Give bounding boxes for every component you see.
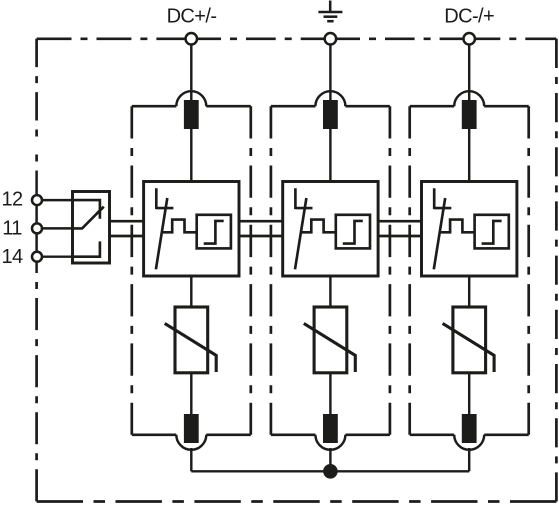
wire SCI unit to varistor branch 2 (earth) [329,276,331,307]
thermal disconnector (top black fuse bar) branch 3 (DC-/+) [462,100,477,129]
svg-text:11: 11 [2,218,22,240]
terminal earth [325,33,337,45]
bottom disconnector (black fuse bar) branch 1 (DC+/-) [184,414,199,443]
varistor body branch 1 (DC+/-) [175,307,208,373]
module bottom exit arc branch 3 (DC-/+) [454,435,484,450]
earth symbol above middle terminal [318,1,342,22]
SCI trigger box branch 2 (earth) [336,215,370,249]
wire to earth bus branch 3 (DC-/+) [468,448,470,471]
outer device boundary left edge solid part at signal terminals [35,171,38,274]
wire to earth bus branch 2 (earth) [329,448,331,471]
contact 12 fixed terminal (L) [73,200,100,219]
wire varistor to bottom disconnector branch 3 (DC-/+) [468,373,470,415]
wire terminal 14 to changeover contact [37,255,100,257]
SCI switch blade branch 3 (DC-/+) [434,198,445,269]
changeover switch blade barb [97,207,104,214]
varistor diagonal stroke branch 1 (DC+/-) [165,323,217,372]
wire disconnector to SCI unit branch 3 (DC-/+) [468,129,470,182]
outer device boundary left edge upper part [35,39,38,146]
terminal 14 circle [32,252,42,262]
thermal disconnector (top black fuse bar) branch 2 (earth) [323,100,338,129]
outer device boundary (dash-dot) top edge [37,37,557,40]
SCI switch contact post branch 2 (earth) [295,188,312,209]
SCI switching unit box branch 2 (earth) [283,182,378,277]
varistor body branch 2 (earth) [314,307,347,373]
SCI trigger hysteresis symbol branch 3 (DC-/+) [482,221,502,244]
SCI switch contact post branch 3 (DC-/+) [434,188,451,209]
wire varistor to bottom disconnector branch 1 (DC+/-) [190,373,192,415]
SCI switch contact post branch 1 (DC+/-) [156,188,173,209]
SCI trigger hysteresis symbol branch 1 (DC+/-) [204,221,224,244]
varistor diagonal stroke branch 2 (earth) [304,323,356,372]
thermal disconnector (top black fuse bar) branch 1 (DC+/-) [184,100,199,129]
wire terminal 11 to changeover contact [37,227,82,229]
terminal 11 circle [32,223,42,233]
protection-module boundary (dash-dot box) branch 2 (earth) [271,106,390,435]
wire from branch 2 (earth) terminal to thermal disconnector [329,45,331,103]
terminal DC-/+ [463,33,475,45]
remote signalling bus wire upper [110,220,471,223]
varistor body branch 3 (DC-/+) [453,307,486,373]
changeover switch blade [73,207,104,228]
SCI control pulse link branch 1 (DC+/-) [163,220,197,233]
bottom disconnector (black fuse bar) branch 3 (DC-/+) [462,414,477,443]
svg-text:DC+/-: DC+/- [167,6,217,28]
SCI control pulse link branch 3 (DC-/+) [441,220,475,233]
outer device boundary bottom edge [37,500,557,503]
wire to earth bus branch 1 (DC+/-) [190,448,192,471]
wire disconnector to SCI unit branch 1 (DC+/-) [190,129,192,182]
outer device boundary left edge lower part [35,273,38,502]
SCI switching unit box branch 3 (DC-/+) [422,182,517,277]
wire from branch 1 (DC+/-) terminal to thermal disconnector [190,45,192,103]
bottom disconnector (black fuse bar) branch 2 (earth) [323,414,338,443]
remote signalling bus wire lower [110,235,471,238]
SCI switch blade branch 2 (earth) [295,198,306,269]
SCI control pulse link branch 2 (earth) [302,220,336,233]
SCI trigger box branch 1 (DC+/-) [197,215,231,249]
protection-module boundary (dash-dot box) branch 3 (DC-/+) [410,106,529,435]
contact 14 fixed terminal (L) [73,241,100,256]
wire disconnector to SCI unit branch 2 (earth) [329,129,331,182]
earth bus wire at bottom [191,470,469,472]
svg-text:DC-/+: DC-/+ [444,6,494,28]
protection-module boundary (dash-dot box) branch 1 (DC+/-) [132,106,251,435]
wire varistor to bottom disconnector branch 2 (earth) [329,373,331,415]
svg-text:12: 12 [1,189,23,211]
SCI switching unit box branch 1 (DC+/-) [144,182,239,277]
SCI trigger hysteresis symbol branch 2 (earth) [343,221,363,244]
wire from branch 3 (DC-/+) terminal to thermal disconnector [468,45,470,103]
terminal DC+/- [186,33,198,45]
wire SCI unit to varistor branch 3 (DC-/+) [468,276,470,307]
module top entry arc branch 1 (DC+/-) [176,91,206,106]
junction node on earth bus [323,464,338,479]
SCI trigger box branch 3 (DC-/+) [475,215,509,249]
outer device boundary right edge [555,39,558,502]
module bottom exit arc branch 1 (DC+/-) [176,435,206,450]
module bottom exit arc branch 2 (earth) [315,435,345,450]
wire terminal 12 to changeover contact [37,199,100,201]
module top entry arc branch 2 (earth) [315,91,345,106]
terminal 12 circle [32,195,42,205]
module top entry arc branch 3 (DC-/+) [454,91,484,106]
wire SCI unit to varistor branch 1 (DC+/-) [190,276,192,307]
varistor diagonal stroke branch 3 (DC-/+) [443,323,495,372]
remote signalling contact box [73,192,110,264]
svg-text:14: 14 [1,246,23,268]
outer device boundary left edge dot above terminal 12 [35,155,38,162]
SCI switch blade branch 1 (DC+/-) [156,198,167,269]
